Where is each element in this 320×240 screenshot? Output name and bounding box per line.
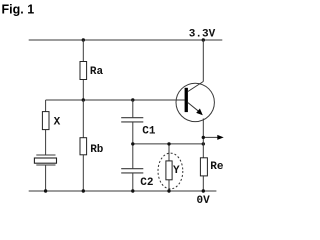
node rail / Re branch (202, 189, 205, 192)
svg-text:3.3V: 3.3V (189, 28, 216, 40)
transistor Q1 base bar (185, 88, 188, 112)
resistor Ra (80, 62, 87, 80)
crystal below X : bottom plate (36, 164, 55, 166)
resistor Re (200, 158, 207, 176)
resistor Rb (80, 138, 87, 155)
wire base horizontal (46, 99, 185, 101)
node left end mid wire (131, 142, 134, 145)
label X (54, 116, 61, 128)
svg-text:Ra: Ra (90, 66, 104, 78)
svg-text:X: X (54, 116, 61, 128)
node rail / C2 branch (131, 189, 134, 192)
node rail / Y branch (167, 189, 170, 192)
crystal Y envelope (dotted ellipse) (158, 153, 183, 189)
label Re (210, 161, 224, 173)
svg-text:0V: 0V (197, 195, 211, 207)
node emitter/output junction (202, 136, 205, 139)
node top of collector branch (202, 38, 205, 41)
svg-text:Fig. 1: Fig. 1 (2, 3, 35, 17)
wire output arrow (203, 135, 223, 140)
label Y (173, 165, 180, 177)
crystal below X : body (34, 158, 56, 163)
resistor X (42, 112, 49, 130)
node rail / Rb branch (82, 189, 85, 192)
label 3.3V (189, 28, 216, 40)
svg-text:Re: Re (210, 161, 224, 173)
node top of Ra branch (82, 38, 85, 41)
wire C1/C2 branch lower (132, 173, 134, 191)
transistor Q1 collector lead (188, 40, 203, 92)
label Rb (90, 144, 104, 156)
svg-text:Y: Y (173, 165, 180, 177)
capacitor C1 (121, 118, 143, 122)
capacitor C2 (121, 169, 143, 173)
wire top 3.3V rail (29, 39, 223, 41)
label 0V (197, 195, 211, 207)
wire Y branch vertical (168, 144, 170, 191)
wire X branch vertical lower (45, 165, 47, 191)
node rail / X branch (44, 189, 47, 192)
node base wire / Ra-Rb junction (82, 98, 85, 101)
wire C1/C2 branch middle (132, 122, 134, 169)
crystal Y body (166, 161, 172, 180)
transistor Q1 circle (176, 83, 214, 121)
node base wire / C1 branch junction (131, 98, 134, 101)
label C1 (142, 126, 156, 138)
wire X branch vertical upper (45, 100, 47, 155)
label C2 (140, 177, 153, 189)
wire Ra branch vertical (82, 40, 84, 100)
wire Rb branch vertical (82, 100, 84, 191)
svg-text:Rb: Rb (90, 144, 104, 156)
title Fig. 1 (2, 3, 35, 17)
svg-text:C2: C2 (140, 177, 153, 189)
wire C1/C2 branch upper (132, 100, 134, 118)
node right end mid wire (202, 142, 205, 145)
wire mid horizontal to emitter branch (133, 143, 204, 145)
crystal below X : top plate (36, 154, 55, 156)
label Ra (90, 66, 104, 78)
transistor Q1 emitter lead with arrow (188, 103, 203, 191)
svg-text:C1: C1 (142, 126, 156, 138)
node top of Y branch (167, 142, 170, 145)
wire bottom 0V rail (29, 190, 217, 192)
